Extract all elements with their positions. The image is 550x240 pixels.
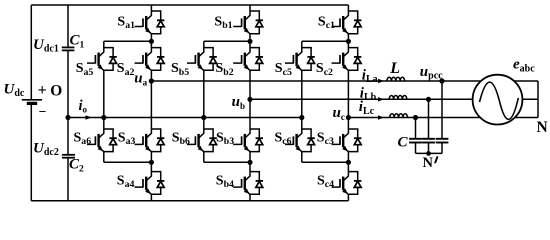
svg-text:+: +	[38, 82, 47, 99]
svg-text:O: O	[50, 82, 62, 99]
svg-text:L: L	[389, 60, 400, 77]
svg-text:−: −	[39, 104, 47, 119]
svg-text:N: N	[537, 119, 548, 136]
svg-text:N: N	[423, 155, 434, 171]
svg-text:C: C	[398, 135, 409, 151]
